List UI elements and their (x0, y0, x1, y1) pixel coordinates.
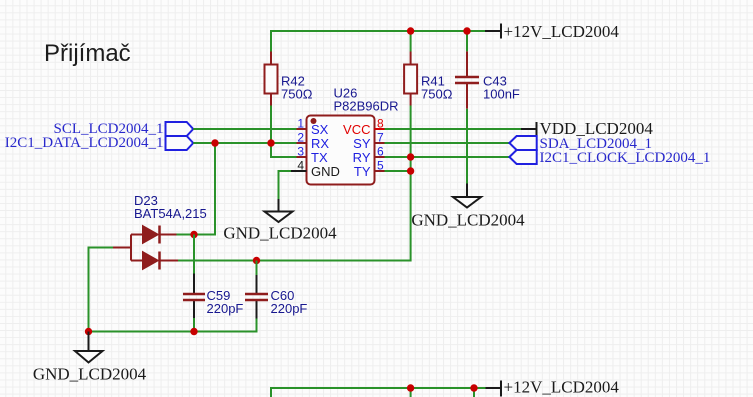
wire R41 top to rail (410, 31, 412, 52)
junction C60 top (253, 257, 260, 264)
svg-text:Přijímač: Přijímač (44, 40, 131, 67)
wire C60 top (256, 261, 258, 276)
capacitor C43 (455, 51, 479, 109)
svg-text:100nF: 100nF (483, 87, 520, 102)
svg-text:5: 5 (377, 159, 384, 173)
wire +12V top rail (271, 31, 485, 52)
pin 5 TY (354, 159, 385, 180)
svg-text:GND_LCD2004: GND_LCD2004 (33, 365, 147, 384)
wire C43 top to rail (466, 31, 468, 51)
junction DATA/D23 (211, 139, 218, 146)
junction bottom rail col2 (470, 384, 477, 391)
wire C43 bottom to ground (466, 109, 468, 184)
op-amp U26 body (307, 116, 375, 185)
svg-text:SX: SX (311, 122, 329, 137)
svg-text:2: 2 (297, 131, 304, 145)
wire SCL to pin1 (193, 128, 296, 130)
wire bottom gnd rail (89, 319, 257, 332)
pin 8 VCC (343, 117, 384, 138)
label U26 P82B96DR (334, 86, 399, 114)
svg-text:TY: TY (354, 164, 371, 179)
svg-text:+12V_LCD2004: +12V_LCD2004 (504, 378, 620, 397)
wire SY to SDA port (385, 142, 510, 144)
label D23 BAT54A,215 (134, 193, 207, 221)
wire RY to I2C1_CLOCK port (385, 156, 510, 158)
pin 6 RY (353, 145, 385, 166)
svg-text:8: 8 (377, 117, 384, 131)
wire DATA to pin2 (193, 142, 296, 144)
svg-text:GND_LCD2004: GND_LCD2004 (223, 224, 337, 243)
label C60 220pF (271, 288, 308, 316)
diode D23 bottom (131, 252, 178, 270)
wire C59 bottom (193, 318, 195, 332)
junction bottom rail col1 (407, 384, 414, 391)
wire TY to R41 column (385, 170, 411, 172)
label C43 100nF (483, 74, 520, 102)
svg-text:220pF: 220pF (271, 301, 308, 316)
power port +12V_LCD2004 bottom (486, 378, 620, 397)
pin 4 GND (291, 159, 340, 180)
wire R41 column down to D23 row (178, 106, 411, 261)
ground GND_LCD2004 bottom left (33, 332, 147, 384)
resistor R42 (265, 52, 278, 106)
label C59 220pF (207, 288, 244, 316)
junction R42/RX (267, 139, 274, 146)
transistor D23 dual diode top (131, 226, 177, 244)
junction rail R41 (407, 27, 414, 34)
svg-text:220pF: 220pF (207, 301, 244, 316)
wire DATA branch down to D23 (177, 143, 216, 235)
svg-text:I2C1_CLOCK_LCD2004_1: I2C1_CLOCK_LCD2004_1 (540, 150, 711, 166)
capacitor C59 (183, 274, 205, 319)
pin 2 RX (297, 131, 330, 152)
svg-text:BAT54A,215: BAT54A,215 (134, 206, 207, 221)
junction D23 top cathode / C59 (190, 231, 197, 238)
svg-text:750Ω: 750Ω (421, 87, 453, 102)
svg-text:VCC: VCC (343, 122, 370, 137)
svg-text:P82B96DR: P82B96DR (334, 99, 399, 114)
svg-text:TX: TX (311, 150, 328, 165)
svg-text:+12V_LCD2004: +12V_LCD2004 (504, 22, 620, 41)
wire VCC to VDD port (385, 128, 522, 130)
svg-text:GND: GND (311, 164, 340, 179)
svg-text:I2C1_DATA_LCD2004_1: I2C1_DATA_LCD2004_1 (5, 135, 164, 151)
wire second circuit +12V rail (271, 388, 486, 397)
svg-text:1: 1 (297, 117, 304, 131)
svg-text:GND_LCD2004: GND_LCD2004 (411, 211, 525, 230)
label R41 750Ω (421, 74, 453, 102)
port SDA_LCD2004_1 (509, 136, 652, 152)
svg-text:RX: RX (311, 136, 329, 151)
port SCL_LCD2004_1 (53, 121, 193, 137)
svg-text:4: 4 (297, 159, 304, 173)
svg-text:750Ω: 750Ω (281, 87, 313, 102)
wire pin4 to ground (279, 171, 292, 199)
pin 7 SY (353, 131, 384, 152)
wire C59 top (193, 235, 195, 274)
svg-text:3: 3 (297, 145, 304, 159)
power port VDD_LCD2004 (521, 119, 653, 138)
label R42 750Ω (281, 74, 313, 102)
junction TY column (407, 167, 414, 174)
svg-text:7: 7 (377, 131, 384, 145)
port I2C1_DATA_LCD2004_1 (5, 135, 193, 151)
port I2C1_CLOCK_LCD2004_1 (509, 150, 710, 166)
junction gnd rail C59 (190, 328, 197, 335)
wire anode to gnd rail (89, 248, 114, 332)
junction RY column (407, 153, 414, 160)
svg-text:6: 6 (377, 145, 384, 159)
junction rail C43 (463, 27, 470, 34)
svg-text:SY: SY (353, 136, 371, 151)
ground GND_LCD2004 under pin4 (223, 199, 337, 243)
wire R42 bottom to TX (271, 106, 297, 158)
capacitor C60 (245, 275, 268, 319)
junction gnd rail left (85, 328, 92, 335)
ground GND_LCD2004 under C43 (411, 184, 525, 230)
pin 1 SX (297, 117, 329, 138)
pin 3 TX (297, 145, 328, 166)
resistor R41 (404, 52, 417, 106)
svg-text:RY: RY (353, 150, 371, 165)
power port +12V_LCD2004 top (485, 22, 619, 41)
D23 common anode (113, 235, 131, 261)
